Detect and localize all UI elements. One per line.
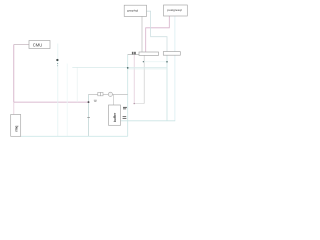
svg-text:postgresql: postgresql bbox=[167, 8, 182, 12]
svg-text:graphql: graphql bbox=[127, 8, 139, 12]
svg-text:CMU: CMU bbox=[33, 42, 43, 47]
svg-text:buffer: buffer bbox=[113, 112, 117, 122]
svg-text:rmq: rmq bbox=[15, 126, 19, 132]
